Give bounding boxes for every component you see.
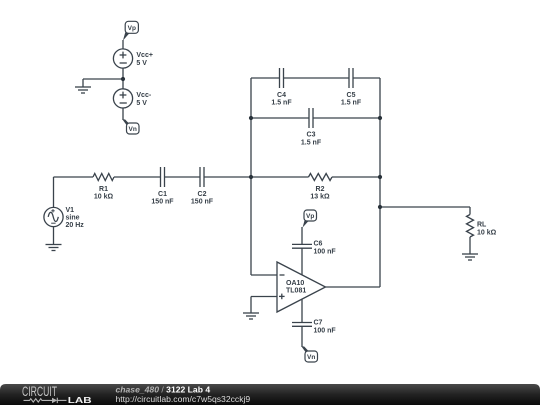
svg-text:150 nF: 150 nF bbox=[191, 199, 214, 206]
svg-text:5 V: 5 V bbox=[136, 60, 147, 67]
svg-text:100 nF: 100 nF bbox=[314, 249, 337, 256]
svg-text:Vcc+: Vcc+ bbox=[136, 52, 153, 59]
svg-text:OA10: OA10 bbox=[286, 280, 304, 287]
svg-text:150 nF: 150 nF bbox=[151, 199, 174, 206]
svg-text:http://circuitlab.com/c7w5qs32: http://circuitlab.com/c7w5qs32cckj9 bbox=[116, 394, 251, 404]
svg-text:R2: R2 bbox=[316, 186, 325, 193]
svg-text:5 V: 5 V bbox=[136, 100, 147, 107]
svg-text:20 Hz: 20 Hz bbox=[66, 222, 85, 229]
svg-text:13 kΩ: 13 kΩ bbox=[310, 194, 330, 201]
svg-text:V1: V1 bbox=[66, 207, 75, 214]
svg-text:10 kΩ: 10 kΩ bbox=[94, 194, 114, 201]
svg-text:Vn: Vn bbox=[307, 354, 315, 361]
svg-text:100 nF: 100 nF bbox=[314, 328, 337, 335]
svg-text:C3: C3 bbox=[307, 132, 316, 139]
svg-text:R1: R1 bbox=[99, 186, 108, 193]
svg-text:Vn: Vn bbox=[129, 126, 137, 133]
svg-text:C7: C7 bbox=[314, 320, 323, 327]
svg-text:C2: C2 bbox=[198, 191, 207, 198]
svg-text:1.5 nF: 1.5 nF bbox=[301, 140, 322, 147]
svg-text:C4: C4 bbox=[277, 92, 286, 99]
svg-text:Vcc-: Vcc- bbox=[136, 92, 151, 99]
svg-text:1.5 nF: 1.5 nF bbox=[271, 100, 292, 107]
svg-text:TL081: TL081 bbox=[286, 288, 306, 295]
svg-text:C5: C5 bbox=[347, 92, 356, 99]
svg-text:C6: C6 bbox=[314, 241, 323, 248]
svg-text:1.5 nF: 1.5 nF bbox=[341, 100, 362, 107]
svg-text:10 kΩ: 10 kΩ bbox=[477, 230, 497, 237]
svg-text:C1: C1 bbox=[158, 191, 167, 198]
svg-text:LAB: LAB bbox=[68, 397, 92, 405]
svg-text:Vp: Vp bbox=[306, 213, 314, 220]
svg-text:Vp: Vp bbox=[128, 25, 136, 32]
svg-text:sine: sine bbox=[66, 215, 80, 222]
svg-text:RL: RL bbox=[477, 222, 487, 229]
svg-text:CIRCUIT: CIRCUIT bbox=[22, 384, 57, 399]
